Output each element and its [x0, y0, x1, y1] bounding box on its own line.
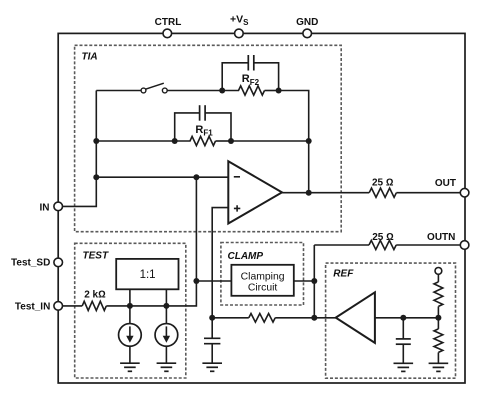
REF block dashed box [326, 263, 456, 378]
wire clamp output [294, 280, 315, 282]
svg-text:1:1: 1:1 [140, 269, 156, 281]
capacitor REF [396, 318, 411, 364]
TEST block dashed box [75, 243, 186, 378]
wire transformer left leg [129, 289, 131, 306]
resistor divider lower [434, 329, 443, 353]
wire output to 25ohm [309, 192, 370, 194]
resistor 25 Ohm OUT [369, 188, 396, 197]
svg-text:Test_IN: Test_IN [15, 301, 50, 312]
junction ref line left junction [209, 315, 215, 321]
terminal Test_SD [54, 258, 63, 267]
svg-text:+VS: +VS [230, 13, 249, 26]
junction RF2 left [219, 88, 225, 94]
svg-text:IN: IN [40, 203, 50, 214]
wire IN to inverting input rail [63, 177, 97, 206]
capacitor CF1 [175, 105, 231, 141]
junction clamp input junction [193, 278, 199, 284]
svg-text:CTRL: CTRL [155, 17, 182, 28]
wire divider bottom lead [437, 352, 439, 363]
wire buffer output line [375, 317, 439, 319]
wire OUTN rail down [313, 281, 315, 318]
junction inverting rail tap [93, 174, 99, 180]
resistor 2 kOhm [82, 301, 106, 310]
resistor RF1 [175, 136, 216, 145]
resistor divider upper [434, 282, 443, 307]
op-amp A1 [228, 161, 282, 223]
terminal IN [54, 202, 63, 211]
wire inverting rail down to clamp [195, 177, 197, 281]
wire I1 top lead [129, 306, 131, 324]
wire switch line left [96, 90, 141, 92]
current source I1 [119, 324, 142, 347]
svg-text:REF: REF [333, 268, 354, 279]
wire non-inverting input rail [212, 208, 228, 318]
wire inverting input line [96, 176, 228, 178]
svg-text:RF1: RF1 [195, 124, 213, 138]
junction RF1 left [172, 138, 178, 144]
junction RF2 right [276, 88, 282, 94]
svg-text:25 Ω: 25 Ω [372, 178, 394, 189]
svg-text:OUTN: OUTN [427, 232, 455, 243]
resistor ref feedback [249, 314, 275, 323]
terminal +VS [235, 29, 244, 38]
ground at REF cap [394, 363, 414, 371]
capacitor CF2 [222, 55, 278, 91]
svg-text:OUT: OUT [435, 178, 456, 189]
resistor RF2 [222, 86, 264, 95]
terminal OUTN [460, 241, 469, 250]
wire Test_IN lead [63, 305, 83, 307]
svg-text:TIA: TIA [82, 52, 98, 63]
switch S1 [141, 83, 167, 93]
svg-text:2 kΩ: 2 kΩ [84, 290, 106, 301]
svg-text:Clamping: Clamping [241, 271, 285, 282]
wire test line to clamp rail [106, 281, 196, 306]
wire ref line left [212, 317, 249, 319]
ground at divider [429, 363, 449, 371]
wire I1 bottom lead [129, 346, 131, 363]
clamping circuit box [231, 265, 293, 296]
wire ref line right [275, 317, 314, 319]
svg-text:GND: GND [296, 17, 318, 28]
svg-text:Circuit: Circuit [248, 283, 278, 294]
terminal Test_IN [54, 302, 63, 311]
junction test line I2 junction [163, 303, 169, 309]
wire RF2 right lead [265, 90, 279, 92]
junction RF1 rail left [93, 138, 99, 144]
wire RF1 right lead [216, 140, 232, 142]
wire feedback rail lower [308, 141, 310, 193]
wire 25ohm to OUT pin [396, 192, 460, 194]
terminal OUT [460, 188, 469, 197]
junction divider junction [435, 315, 441, 321]
wire OUTN rail up [313, 245, 315, 281]
wire transformer right leg [165, 289, 167, 306]
wire divider mid upper [437, 306, 439, 317]
svg-text:25 Ω: 25 Ω [372, 232, 394, 243]
wire switch to RF2 [167, 90, 222, 92]
junction feedback rail RF1 tap [306, 138, 312, 144]
TIA block dashed box [75, 45, 342, 231]
wire left feedback rail [95, 91, 97, 178]
wire OUTN line to 25ohm [314, 244, 369, 246]
junction RF1 right [228, 138, 234, 144]
terminal CTRL [163, 29, 172, 38]
ground at I1 [120, 363, 140, 371]
divider top terminal [435, 268, 442, 275]
junction clamp output junction [311, 278, 317, 284]
wire ref line to buffer [314, 317, 336, 319]
svg-text:Test_SD: Test_SD [11, 258, 50, 269]
wire 25ohm to OUTN pin [396, 244, 460, 246]
svg-text:RF2: RF2 [242, 73, 260, 87]
ground at I2 [157, 363, 177, 371]
wire RF1 to feedback rail [231, 140, 309, 142]
current source I2 [155, 324, 178, 347]
buffer amplifier REF [336, 292, 375, 343]
wire I2 bottom lead [165, 346, 167, 363]
wire RF1 left lead [96, 140, 174, 142]
CLAMP block dashed box [221, 243, 304, 306]
svg-text:TEST: TEST [83, 251, 109, 262]
wire op-amp output [282, 192, 309, 194]
junction ref cap junction [400, 315, 406, 321]
capacitor on non-inverting rail [204, 318, 220, 363]
wire divider top lead [437, 274, 439, 282]
resistor 25 Ohm OUTN [369, 240, 396, 249]
wire I2 top lead [165, 306, 167, 324]
junction output feedback tap [306, 190, 312, 196]
junction test line I1 junction [127, 303, 133, 309]
wire divider mid lower [437, 318, 439, 329]
ground at non-inverting rail [202, 363, 222, 371]
transformer 1:1 box [116, 259, 178, 289]
junction inverting to clamp tap [193, 174, 199, 180]
wire RF2 to feedback rail [279, 91, 309, 142]
svg-text:CLAMP: CLAMP [228, 251, 264, 262]
wire clamp input [196, 280, 231, 282]
junction ref line OUTN rail junction [311, 315, 317, 321]
outer boundary box [58, 33, 465, 383]
terminal GND [303, 29, 312, 38]
